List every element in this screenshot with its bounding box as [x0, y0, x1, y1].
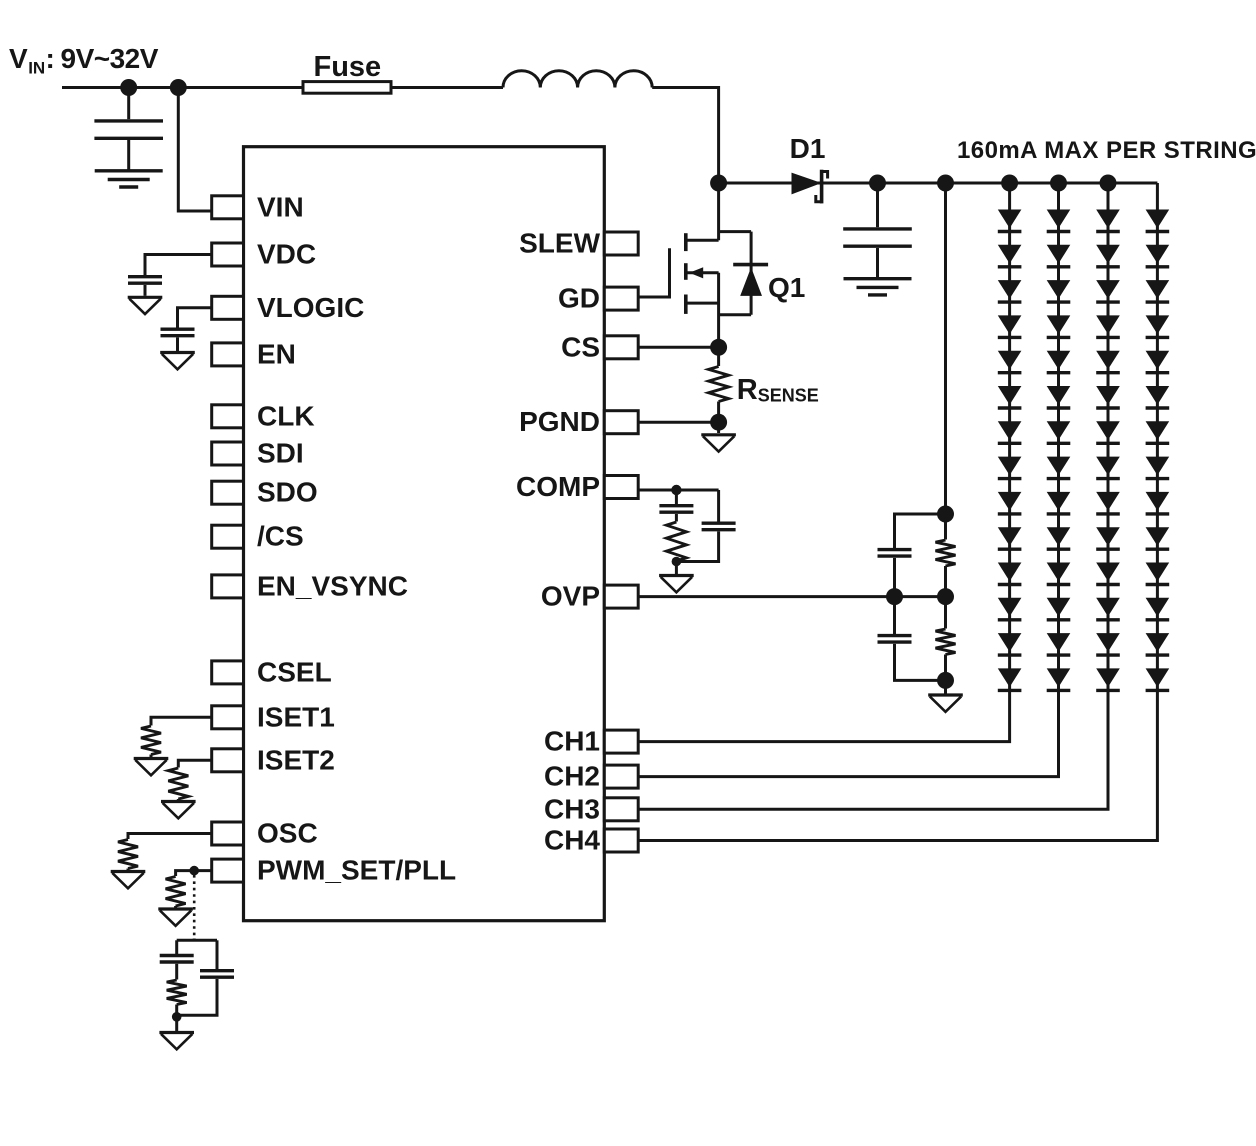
pin VLOGIC (box + label) [212, 296, 244, 319]
LED string 3 diode 10 [1096, 527, 1120, 546]
wire ISET2 to resistor [178, 760, 211, 767]
ground PGND (triangle) [717, 422, 720, 433]
wire OVP feed from output rail [944, 183, 947, 514]
capacitor VLOGIC bypass [161, 328, 195, 331]
LED string 2 diode 13 [1047, 633, 1071, 652]
pin ISET1 (box + label) [212, 706, 244, 729]
LED string 1 diode 4 [998, 315, 1022, 334]
pin SLEW (box + label) [604, 232, 638, 255]
resistor PLL filter series [167, 980, 187, 1005]
resistor OVP upper [944, 514, 947, 540]
LED string 3 diode 3 [1096, 280, 1120, 299]
capacitor PLL filter series [175, 940, 178, 954]
node CS junction [710, 339, 727, 356]
node PLL filter bottom [172, 1012, 182, 1022]
capacitor OVP upper [895, 514, 946, 548]
svg-text:CH3: CH3 [544, 793, 600, 824]
capacitor PLL filter parallel [216, 940, 219, 969]
LED string 1 diode 7 [998, 421, 1022, 440]
svg-text:CLK: CLK [257, 400, 315, 431]
capacitor output bulk [876, 183, 879, 227]
capacitor input bulk [127, 88, 130, 120]
node input rail junction A (cap tap) [120, 79, 137, 96]
svg-text:OSC: OSC [257, 818, 318, 849]
svg-text::: : [46, 43, 55, 74]
ground OVP (triangle) [944, 680, 947, 693]
svg-text:OVP: OVP [541, 581, 600, 612]
LED string 2 diode 4 [1047, 315, 1071, 334]
svg-text:CSEL: CSEL [257, 656, 332, 687]
LED string 1 diode 11 [998, 563, 1022, 582]
pin SDI (box + label) [212, 442, 244, 465]
node OVP feed junction [937, 175, 954, 192]
LED string 4 diode 5 [1146, 351, 1170, 370]
svg-text:CH1: CH1 [544, 726, 600, 757]
svg-text:CH4: CH4 [544, 825, 600, 856]
svg-text:Q1: Q1 [768, 272, 805, 303]
LED string 1 diode 6 [998, 386, 1022, 405]
wire CS to source node [638, 346, 718, 349]
LED string 2 diode 9 [1047, 492, 1071, 511]
wire OSC to resistor [128, 834, 212, 840]
pin CH1 (box + label) [604, 730, 638, 753]
resistor ISET2 [168, 768, 188, 799]
wire GD to gate of Q1 [638, 248, 669, 297]
LED string 2 diode 14 [1047, 668, 1071, 687]
LED string 4 diode 8 [1146, 457, 1170, 476]
LED string 1 diode 14 [998, 668, 1022, 687]
ground VLOGIC (triangle) [160, 351, 195, 354]
LED string 1 diode 5 [998, 351, 1022, 370]
LED string 3 diode 6 [1096, 386, 1120, 405]
LED string 1 diode 12 [998, 598, 1022, 617]
wire PLL filter top rail [177, 939, 217, 941]
pin CH2 (box + label) [604, 765, 638, 788]
LED string 3 diode 12 [1096, 598, 1120, 617]
node switch node junction [710, 175, 727, 192]
pin OVP (box + label) [604, 585, 638, 608]
LED string 4 diode 9 [1146, 492, 1170, 511]
svg-text:RSENSE: RSENSE [737, 374, 819, 406]
pin COMP (box + label) [604, 476, 638, 499]
LED string 1 diode 3 [998, 280, 1022, 299]
ground input cap (earth symbol) [95, 169, 163, 172]
resistor OSC [118, 840, 138, 869]
resistor ISET1 [141, 726, 161, 755]
svg-text:COMP: COMP [516, 471, 600, 502]
node COMP resistor bottom [672, 557, 682, 567]
pin EN (box + label) [212, 343, 244, 366]
wire output rail (switch node to LED strings) [719, 182, 1158, 185]
node OVP mid right [937, 588, 954, 605]
svg-text:CS: CS [561, 331, 600, 362]
svg-text:GD: GD [558, 283, 600, 314]
LED string 1 diode 10 [998, 527, 1022, 546]
node LED string 1 junction [1001, 175, 1018, 192]
capacitor COMP parallel [717, 490, 720, 522]
svg-text:ISET2: ISET2 [257, 744, 335, 775]
wire PWM_SET/PLL to resistor [176, 871, 212, 876]
wire LED string 2 vertical [638, 183, 1058, 777]
node output cap junction [869, 175, 886, 192]
LED string 4 diode 12 [1146, 598, 1170, 617]
LED string 4 diode 10 [1146, 527, 1170, 546]
ground PLL filter (triangle) [175, 1017, 178, 1031]
LED string 4 diode 2 [1146, 245, 1170, 264]
LED string 4 diode 7 [1146, 421, 1170, 440]
LED string 3 diode 14 [1096, 668, 1120, 687]
pin CS (box + label) [604, 336, 638, 359]
LED string 2 diode 11 [1047, 563, 1071, 582]
wire OVP to divider [638, 595, 945, 598]
LED string 1 diode 13 [998, 633, 1022, 652]
LED string 3 diode 9 [1096, 492, 1120, 511]
svg-text:VLOGIC: VLOGIC [257, 292, 364, 323]
svg-text:EN_VSYNC: EN_VSYNC [257, 570, 408, 601]
ground VDC (triangle) [128, 296, 163, 299]
svg-text:SLEW: SLEW [519, 228, 600, 259]
LED string 4 diode 11 [1146, 563, 1170, 582]
pin GD (box + label) [604, 287, 638, 310]
wire LED string 1 vertical [638, 183, 1009, 742]
pin CLK (box + label) [212, 405, 244, 428]
svg-text:V: V [9, 43, 28, 74]
ground COMP (triangle) [675, 562, 678, 575]
svg-text:CH2: CH2 [544, 761, 600, 792]
wire VIN feed from rail to pin [178, 88, 211, 212]
svg-text:EN: EN [257, 338, 296, 369]
node OVP mid left [886, 588, 903, 605]
LED string 3 diode 7 [1096, 421, 1120, 440]
LED string 4 diode 4 [1146, 315, 1170, 334]
LED string 1 diode 1 [998, 210, 1022, 229]
pin PWM_SET/PLL (box + label) [212, 859, 244, 882]
capacitor COMP series [675, 490, 678, 504]
pin ISET2 (box + label) [212, 749, 244, 772]
wire input rail left segment [62, 86, 303, 89]
LED string 4 diode 6 [1146, 386, 1170, 405]
LED string 2 diode 1 [1047, 210, 1071, 229]
LED string 3 diode 4 [1096, 315, 1120, 334]
resistor COMP series [666, 522, 686, 561]
transistor Q1 body lead with arrow [686, 271, 719, 274]
svg-text:9V~32V: 9V~32V [61, 43, 159, 74]
svg-text:160mA MAX PER STRING: 160mA MAX PER STRING [957, 137, 1256, 164]
ground output cap (earth symbol) [844, 277, 912, 280]
LED string 3 diode 1 [1096, 210, 1120, 229]
node LED string 3 junction [1100, 175, 1117, 192]
LED string 4 diode 14 [1146, 668, 1170, 687]
pin EN_VSYNC (box + label) [212, 575, 244, 598]
svg-text:PWM_SET/PLL: PWM_SET/PLL [257, 855, 456, 886]
LED string 2 diode 7 [1047, 421, 1071, 440]
pin CH3 (box + label) [604, 798, 638, 821]
svg-text:SDI: SDI [257, 438, 304, 469]
svg-text:/CS: /CS [257, 521, 304, 552]
LED string 4 diode 13 [1146, 633, 1170, 652]
node LED string 2 junction [1050, 175, 1067, 192]
node OVP divider bottom [937, 672, 954, 689]
LED string 1 diode 2 [998, 245, 1022, 264]
fuse F1 [303, 82, 391, 94]
LED string 1 diode 8 [998, 457, 1022, 476]
LED string 3 diode 5 [1096, 351, 1120, 370]
svg-text:SDO: SDO [257, 477, 318, 508]
wire LED string 3 vertical [638, 183, 1108, 809]
pin CH4 (box + label) [604, 829, 638, 852]
capacitor OVP lower [893, 597, 896, 635]
wire VDC to bypass cap [145, 255, 212, 276]
pin SDO (box + label) [212, 481, 244, 504]
LED string 3 diode 11 [1096, 563, 1120, 582]
capacitor VDC bypass [128, 275, 162, 278]
pin VIN (box + label) [212, 196, 244, 219]
svg-text:D1: D1 [790, 133, 826, 164]
transistor Q1 drain lead [686, 183, 719, 240]
LED string 2 diode 12 [1047, 598, 1071, 617]
wire inductor to switch node [652, 88, 718, 184]
node input rail junction B (VIN tap) [170, 79, 187, 96]
wire PGND to sense ground [638, 421, 718, 424]
LED string 4 diode 3 [1146, 280, 1170, 299]
svg-text:Fuse: Fuse [314, 51, 382, 83]
LED string 2 diode 6 [1047, 386, 1071, 405]
op-amp U1 (LED driver IC body) [244, 147, 605, 921]
svg-text:PGND: PGND [519, 406, 600, 437]
transistor Q1 (NMOS channel segments) [684, 233, 688, 251]
ground ISET2 (triangle) [161, 800, 196, 803]
svg-text:VIN: VIN [257, 191, 304, 222]
LED string 2 diode 5 [1047, 351, 1071, 370]
pin VDC (box + label) [212, 243, 244, 266]
pin CSEL (box + label) [212, 661, 244, 684]
wire VLOGIC to bypass cap [178, 308, 212, 328]
node PWM_SET junction [189, 866, 199, 876]
svg-text:ISET1: ISET1 [257, 701, 335, 732]
wire fuse to inductor [391, 86, 503, 89]
transistor Q1 source lead [686, 273, 719, 348]
diode D1 (schottky) [792, 173, 822, 195]
LED string 3 diode 8 [1096, 457, 1120, 476]
LED string 4 diode 1 [1146, 210, 1170, 229]
LED string 1 diode 9 [998, 492, 1022, 511]
svg-text:IN: IN [28, 59, 45, 78]
wire ISET1 to resistor [151, 717, 212, 725]
LED string 2 diode 10 [1047, 527, 1071, 546]
LED string 3 diode 13 [1096, 633, 1120, 652]
LED string 2 diode 8 [1047, 457, 1071, 476]
wire LED string 4 vertical [638, 183, 1157, 841]
inductor L1 [503, 71, 652, 88]
LED string 2 diode 3 [1047, 280, 1071, 299]
ground ISET1 (triangle) [134, 757, 169, 760]
LED string 2 diode 2 [1047, 245, 1071, 264]
node COMP junction [671, 485, 681, 495]
wire COMP output [638, 489, 718, 492]
resistor PWM_SET [166, 877, 186, 907]
pin OSC (box + label) [212, 822, 244, 845]
pin PGND (box + label) [604, 411, 638, 434]
wire PWM_SET dotted drop [193, 875, 196, 939]
ground OSC (triangle) [111, 870, 146, 873]
node OVP divider top [937, 506, 954, 523]
ground PWM_SET (triangle) [158, 907, 193, 910]
pin /CS (box + label) [212, 525, 244, 548]
resistor RSENSE [717, 347, 720, 366]
svg-text:VDC: VDC [257, 239, 316, 270]
transistor Q1 body diode branch [719, 232, 752, 315]
LED string 3 diode 2 [1096, 245, 1120, 264]
node PGND junction [710, 414, 727, 431]
resistor OVP lower [944, 597, 947, 629]
